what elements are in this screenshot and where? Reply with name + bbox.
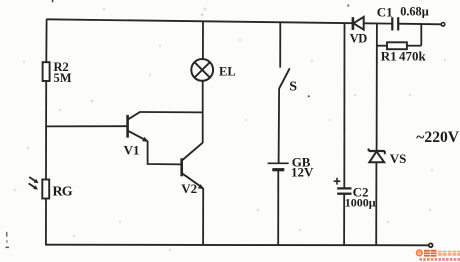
wire base to V1 [46,125,127,127]
svg-text:V1: V1 [124,143,140,158]
terminal AC bottom [429,243,433,247]
lamp EL [191,59,235,81]
wire left rail lower [45,199,47,246]
capacitor C1 [377,4,429,30]
transistor V2 [181,143,204,197]
transistor V1 [124,112,149,158]
svg-text:12V: 12V [291,165,314,180]
wire left rail upper [45,19,47,62]
diode VD [350,17,368,46]
wire V2 emitter down [202,188,204,245]
wire VS drop [376,24,378,152]
noise mark left edge exclamation [6,232,7,237]
noise speck mid right [308,95,310,97]
zener diode VS [369,148,407,166]
watermark text bold [424,250,437,257]
svg-text:RG: RG [53,185,73,200]
svg-text:0.68μ: 0.68μ [400,4,429,18]
noise speck above lamp junction [201,14,203,16]
wire C2 drop [343,23,345,188]
svg-text:1000μ: 1000μ [345,196,376,210]
svg-text:EL: EL [219,65,236,79]
svg-text:S: S [289,79,297,94]
resistor R2 [43,60,72,85]
wire bottom rail [46,244,429,247]
wire switch to battery [278,89,281,164]
wire lamp top [202,21,204,59]
watermark text light [438,251,460,256]
wire VD to C1 [364,22,392,24]
resistor R1 [377,24,427,64]
light arrow 2 [29,183,38,189]
svg-text:5M: 5M [54,71,72,85]
watermark small text row [419,258,460,261]
wire C2 down [343,194,345,246]
svg-text:V2: V2 [181,181,197,196]
wire VS down [375,162,377,245]
svg-text:VD: VD [350,32,368,46]
wire C1 to terminal [398,23,441,26]
wire V1 emitter down [148,141,182,164]
terminal AC top [441,23,445,27]
svg-text:~220V: ~220V [416,129,459,146]
battery GB [268,154,314,179]
svg-text:470k: 470k [399,49,427,64]
wire switch top [279,22,281,68]
svg-text:VS: VS [390,151,407,166]
noise speck top left [52,0,54,2]
svg-text:R1: R1 [381,49,397,64]
photoresistor RG [42,180,73,200]
noise speck near VD [347,4,349,6]
wire top rail left [46,19,353,23]
wire battery down [277,170,279,246]
wire lamp bottom [202,81,204,143]
light arrow 1 [29,177,38,183]
wire V1 collector [140,111,203,113]
wire left rail middle [45,81,47,180]
capacitor C2 [334,178,376,210]
svg-text:C1: C1 [377,5,393,20]
switch S [279,68,297,94]
watermark logo circle [416,249,423,256]
